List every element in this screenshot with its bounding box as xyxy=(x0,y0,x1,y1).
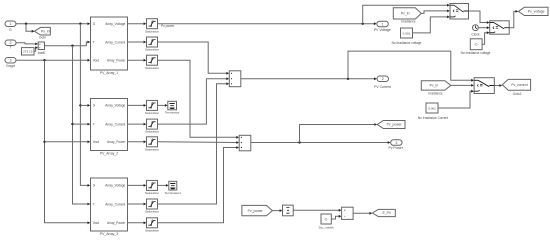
svg-text:2: 2 xyxy=(382,77,384,81)
svg-text:T: T xyxy=(93,122,95,126)
wire Add0 to PV_Array_1 T input xyxy=(45,42,89,46)
svg-text:Array_Power: Array_Power xyxy=(107,59,126,63)
wire array output to saturation 5 xyxy=(128,123,145,125)
svg-text:Array_Voltage: Array_Voltage xyxy=(105,22,125,26)
wire Pv_irr to Switch2 in2 xyxy=(451,84,472,86)
wire voltage array1 to outport PV Voltage xyxy=(158,23,375,25)
svg-text:+: + xyxy=(39,46,41,50)
svg-text:-C-: -C- xyxy=(474,43,479,47)
svg-text:PV Current: PV Current xyxy=(374,85,391,89)
wire voltage branch up to Switch in1 xyxy=(363,5,448,24)
svg-text:T: T xyxy=(93,202,95,206)
wire power array3 to Add2 in3 xyxy=(158,148,237,223)
goto tag Pv_irr (Goto) xyxy=(35,27,51,35)
saturation block 9 xyxy=(147,218,158,228)
saturation block 7 xyxy=(147,180,158,190)
node G distribution xyxy=(79,23,81,25)
wire Pv_irr to Switch in2 xyxy=(421,11,447,14)
svg-text:Pv_current: Pv_current xyxy=(511,83,527,87)
node G-branch to Goto xyxy=(25,23,27,25)
svg-text:Pv_power: Pv_power xyxy=(248,209,264,213)
node G to array2 xyxy=(79,104,81,106)
outport 1 PV Voltage xyxy=(377,21,389,27)
svg-text:Array_Voltage: Array_Voltage xyxy=(105,104,125,108)
node voltage branch xyxy=(362,23,364,25)
subsystem PV_Array_1 xyxy=(91,17,128,70)
svg-text:Irradiance: Irradiance xyxy=(401,20,415,24)
wire Add2 to outport Pv Power xyxy=(251,142,388,144)
wire array output to saturation 6 xyxy=(128,141,145,143)
wire 0.001 to Switch in3 xyxy=(413,17,448,33)
saturation block 1 xyxy=(147,19,158,29)
inport 1 G xyxy=(5,21,16,27)
sum block Add2 powers xyxy=(239,135,251,151)
wire power array2 to Add2 in2 xyxy=(158,141,237,144)
svg-text:×: × xyxy=(344,209,346,213)
svg-text:Vmppt: Vmppt xyxy=(6,64,15,68)
svg-text:Goto2: Goto2 xyxy=(513,92,522,96)
subsystem PV_Array_2 xyxy=(91,99,128,151)
svg-text:T: T xyxy=(9,46,11,50)
wire array output to saturation 7 xyxy=(128,184,145,186)
svg-text:Add0: Add0 xyxy=(38,51,46,55)
wire Switch2 to goto Pv_current xyxy=(494,85,500,87)
wire G vertical to arrays 2 and 3 xyxy=(80,24,88,186)
svg-text:Array_Power: Array_Power xyxy=(107,221,126,225)
svg-text:Vout: Vout xyxy=(93,59,99,63)
outport 3 Pv Power xyxy=(391,140,403,146)
svg-text:Saturation: Saturation xyxy=(145,228,159,232)
wire Vmppt to array2 Vout input xyxy=(45,141,89,143)
wire Divide to goto E_PV xyxy=(353,212,370,214)
svg-text:Terminator: Terminator xyxy=(165,111,180,115)
svg-text:273.15: 273.15 xyxy=(23,50,33,54)
svg-text:Array_Current: Array_Current xyxy=(105,202,125,206)
svg-text:Vout: Vout xyxy=(93,221,99,225)
svg-text:Saturation: Saturation xyxy=(145,130,159,134)
math block 1/u xyxy=(283,205,294,216)
svg-text:Saturation: Saturation xyxy=(145,48,159,52)
svg-text:Pv_irr: Pv_irr xyxy=(430,84,440,88)
svg-text:Saturation: Saturation xyxy=(145,147,159,151)
constant 0.001 No Irradiance Current xyxy=(426,103,438,113)
svg-text:3: 3 xyxy=(10,59,12,63)
svg-text:PV_Array_2: PV_Array_2 xyxy=(100,152,118,156)
terminator Terminator1 xyxy=(158,184,167,186)
svg-text:Array_Voltage: Array_Voltage xyxy=(105,184,125,188)
svg-text:Terminator1: Terminator1 xyxy=(165,191,182,195)
svg-text:Saturation: Saturation xyxy=(145,66,159,70)
sum block Add0 xyxy=(38,42,44,50)
wire -C- to Switch1 in3 xyxy=(482,33,487,45)
from tag Pv_irr Irradiance (current) xyxy=(421,81,451,90)
svg-text:Array_Current: Array_Current xyxy=(105,122,125,126)
inport 2 T xyxy=(5,40,16,46)
wire 273.15 to Add0 xyxy=(34,48,36,52)
svg-text:÷: ÷ xyxy=(344,215,346,219)
wire G branch down to Goto tag xyxy=(26,24,34,32)
terminator Terminator xyxy=(158,104,166,106)
switch Switch2 (irradiance current) xyxy=(474,78,494,94)
wire T to array2 T input xyxy=(73,123,89,125)
wire Vmppt vertical to arrays 2 and 3 xyxy=(45,60,89,223)
svg-text:Pv power: Pv power xyxy=(161,24,175,28)
saturation block 6 xyxy=(147,137,158,147)
clock Clock xyxy=(473,25,479,31)
wire G to array2 G input xyxy=(80,104,88,106)
node Vmppt to array2 xyxy=(43,141,45,143)
constant -C- Stc_i width xyxy=(321,214,331,224)
wire Add1 to outport PV Current xyxy=(241,78,375,80)
svg-text:2: 2 xyxy=(10,41,12,45)
wire power array1 to Add2 in1 xyxy=(158,60,237,137)
node Vmppt distribution xyxy=(43,59,45,61)
svg-text:PV Voltage: PV Voltage xyxy=(374,28,391,32)
wire G to PV_Array_1 xyxy=(16,23,89,25)
svg-text:PV_Array_1: PV_Array_1 xyxy=(100,71,118,75)
svg-text:Clock: Clock xyxy=(472,32,480,36)
svg-text:Pv Power: Pv Power xyxy=(388,146,403,150)
node current branch xyxy=(347,78,349,80)
inport 3 Vmppt xyxy=(5,58,16,64)
node power branch xyxy=(298,141,300,143)
saturation block 5 xyxy=(147,119,158,129)
switch Switch (irradiance voltage) xyxy=(450,4,469,20)
saturation block 2 xyxy=(147,37,158,47)
switch Switch1 (clock voltage) xyxy=(490,21,510,34)
wire Pv_power to reciprocal block xyxy=(272,210,280,212)
wire T vertical to arrays 2 and 3 xyxy=(73,46,89,204)
node T to array2 xyxy=(71,123,73,125)
outport 2 PV Current xyxy=(377,76,389,82)
wire Vmppt to PV_Array_1 Vout input xyxy=(16,59,89,61)
saturation block 8 xyxy=(147,199,158,209)
wire array output to saturation 8 xyxy=(128,203,145,205)
constant 273.15 xyxy=(22,48,35,55)
svg-text:Vout: Vout xyxy=(93,140,99,144)
svg-text:Array_Power: Array_Power xyxy=(107,140,126,144)
svg-text:No Irradiance voltage: No Irradiance voltage xyxy=(392,41,422,45)
svg-text:0.001: 0.001 xyxy=(403,31,411,35)
saturation block 3 xyxy=(147,55,158,65)
divide block Divide xyxy=(342,207,354,219)
from tag Pv_power (energy) xyxy=(242,205,273,215)
wire Switch to Switch1 in1 xyxy=(469,11,488,23)
svg-text:0.001: 0.001 xyxy=(428,106,436,110)
goto tag Pv_current xyxy=(502,79,530,90)
svg-text:No Irradiance Current: No Irradiance Current xyxy=(418,116,448,120)
svg-text:Pv_irr: Pv_irr xyxy=(401,12,411,16)
wire 0.001 to Switch2 in3 xyxy=(438,91,472,108)
svg-text:Saturation: Saturation xyxy=(145,210,159,214)
svg-text:1: 1 xyxy=(382,22,384,26)
svg-text:-C-: -C- xyxy=(324,217,328,221)
svg-text:Saturation: Saturation xyxy=(145,111,159,115)
node T distribution xyxy=(71,45,73,47)
wire Clock to Switch1 in2 xyxy=(478,27,487,29)
goto tag Pv_voltage xyxy=(518,7,548,15)
svg-text:1: 1 xyxy=(10,22,12,26)
sum block Add1 currents xyxy=(229,71,241,87)
svg-text:Goto: Goto xyxy=(39,36,46,40)
svg-text:PV_Array_3: PV_Array_3 xyxy=(100,232,118,236)
wire T to Add0 xyxy=(16,43,36,44)
wire Switch1 to goto Pv_voltage xyxy=(509,11,516,27)
wire array output to saturation 9 xyxy=(128,222,145,224)
svg-text:Stc_i width: Stc_i width xyxy=(319,226,334,230)
svg-text:G: G xyxy=(9,28,12,32)
constant 0.001 No Irradiance voltage xyxy=(401,28,413,38)
svg-text:E_PV: E_PV xyxy=(383,211,392,215)
svg-text:No Irradiance voltage: No Irradiance voltage xyxy=(461,51,491,55)
from tag Pv_irr Irradiance xyxy=(393,8,421,19)
saturation block 4 xyxy=(147,100,158,110)
goto tag Pv_power xyxy=(377,121,405,129)
svg-text:Array_Current: Array_Current xyxy=(105,40,125,44)
wire array output to saturation 1 xyxy=(128,23,145,25)
wire current array1 to Add1 in1 xyxy=(158,42,228,73)
wire current branch to Switch2 in1 xyxy=(348,51,472,80)
subsystem PV_Array_3 xyxy=(91,178,128,231)
svg-text:Pv_irr: Pv_irr xyxy=(41,29,51,33)
constant -C- No Irradiance voltage xyxy=(470,39,482,50)
svg-text:Saturation: Saturation xyxy=(145,191,159,195)
wire current array2 to Add1 in2 xyxy=(158,79,228,124)
wire 1/u to Divide xyxy=(293,209,339,211)
goto tag E_PV xyxy=(372,209,395,216)
wire current array3 to Add1 in3 xyxy=(158,84,228,204)
wire -C- to Divide in2 xyxy=(331,216,339,219)
svg-text:Pv_voltage: Pv_voltage xyxy=(528,10,545,14)
wire array output to saturation 3 xyxy=(128,59,145,61)
wire array output to saturation 2 xyxy=(128,41,145,43)
svg-text:Saturation: Saturation xyxy=(145,29,159,33)
svg-text:T: T xyxy=(93,40,95,44)
wire array output to saturation 4 xyxy=(128,104,145,106)
svg-text:Irradiance: Irradiance xyxy=(428,92,442,96)
wire power branch to goto Pv_power xyxy=(300,125,375,143)
svg-text:Pv_power: Pv_power xyxy=(387,123,403,127)
svg-text:3: 3 xyxy=(395,141,397,145)
